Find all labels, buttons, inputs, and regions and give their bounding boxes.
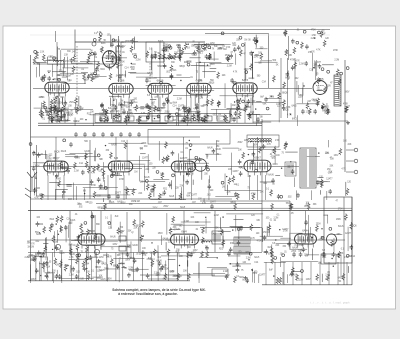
svg-text:22K: 22K bbox=[173, 120, 177, 122]
RC cluster bottom strip left bbox=[31, 252, 191, 281]
switch gang dashed line 2 bbox=[149, 63, 151, 86]
svg-text:250V: 250V bbox=[152, 208, 158, 210]
if coil box bbox=[247, 135, 279, 147]
svg-text:6AL5: 6AL5 bbox=[285, 76, 291, 79]
svg-text:4.7K: 4.7K bbox=[53, 242, 58, 244]
RC cluster row2 left bbox=[29, 139, 96, 201]
grid labels above row1 bbox=[145, 62, 266, 87]
RC cluster under V4 bbox=[144, 95, 185, 122]
svg-text:33K: 33K bbox=[259, 116, 263, 118]
svg-text:4.7K: 4.7K bbox=[95, 71, 100, 73]
wire vertical x262 bbox=[261, 119, 263, 252]
wire top bus right step bbox=[205, 33, 269, 35]
svg-text:115V: 115V bbox=[298, 279, 303, 281]
yoke winding 2 bbox=[234, 246, 250, 254]
tube V13 bbox=[78, 234, 105, 249]
svg-text:6BQ6: 6BQ6 bbox=[192, 54, 198, 56]
svg-text:22K: 22K bbox=[175, 187, 179, 189]
tube type labels bbox=[53, 77, 324, 234]
svg-text:2.2M: 2.2M bbox=[299, 63, 304, 65]
small transformer pair bbox=[119, 236, 126, 251]
wire bus F right bottom bbox=[262, 284, 352, 286]
svg-text:12AT7: 12AT7 bbox=[180, 156, 188, 160]
ground bottom mid bbox=[244, 276, 248, 280]
svg-text:1.5K: 1.5K bbox=[226, 47, 231, 49]
svg-text:6AL5: 6AL5 bbox=[242, 78, 249, 82]
svg-text:250V: 250V bbox=[69, 102, 75, 104]
svg-text:270K: 270K bbox=[132, 54, 138, 56]
long thin box band B bbox=[148, 130, 230, 145]
svg-text:12AT7: 12AT7 bbox=[103, 188, 110, 191]
node dot top bbox=[256, 40, 259, 43]
svg-text:33K: 33K bbox=[190, 169, 194, 171]
svg-text:6CB6: 6CB6 bbox=[118, 78, 125, 82]
svg-text:180V: 180V bbox=[131, 201, 137, 203]
svg-text:22K: 22K bbox=[152, 168, 156, 170]
svg-text:22K: 22K bbox=[51, 113, 55, 115]
svg-text:6AU6: 6AU6 bbox=[304, 234, 310, 237]
wire vertical feed left bbox=[74, 30, 76, 56]
wire bus D main bbox=[28, 210, 352, 212]
svg-text:1.5K: 1.5K bbox=[64, 55, 69, 57]
svg-text:6CB6: 6CB6 bbox=[54, 77, 61, 81]
svg-text:12AT7: 12AT7 bbox=[345, 232, 352, 235]
svg-text:2.2M: 2.2M bbox=[35, 188, 40, 190]
svg-text:180V: 180V bbox=[253, 144, 259, 146]
RC cluster A4 top mid bbox=[221, 32, 264, 62]
terminal circle top bbox=[202, 44, 207, 49]
svg-text:à redressé l'oscillateur son,: à redressé l'oscillateur son, à gauche. bbox=[118, 292, 178, 296]
svg-text:t . i . . r . . t . i .: t . i . . r . . t . i . . u . f . mod . … bbox=[311, 301, 350, 305]
svg-text:22K: 22K bbox=[145, 169, 149, 171]
svg-text:1M: 1M bbox=[56, 264, 59, 266]
tube V3 bbox=[109, 83, 133, 97]
wire top bus bbox=[75, 41, 205, 43]
labels right of T1 bbox=[319, 155, 339, 188]
RC cluster bottom strip right bbox=[223, 252, 352, 284]
svg-text:10K: 10K bbox=[238, 150, 242, 152]
svg-text:6AL5: 6AL5 bbox=[169, 195, 175, 198]
terminal strip J1 bbox=[354, 148, 358, 152]
svg-text:68K: 68K bbox=[198, 49, 202, 51]
svg-text:1M: 1M bbox=[222, 187, 225, 189]
label column volume bbox=[25, 241, 44, 262]
svg-text:1M: 1M bbox=[68, 223, 71, 225]
svg-text:2.2M: 2.2M bbox=[136, 60, 141, 62]
svg-text:1.5K: 1.5K bbox=[40, 51, 45, 53]
svg-text:6AL5: 6AL5 bbox=[273, 163, 279, 166]
wire verticals audio col bbox=[280, 58, 282, 118]
switch gang dashed line bbox=[76, 46, 78, 115]
svg-text:250V: 250V bbox=[119, 231, 125, 233]
tube V14 bbox=[171, 234, 199, 248]
svg-text:33K: 33K bbox=[129, 204, 133, 206]
svg-text:1.5K: 1.5K bbox=[275, 140, 280, 142]
svg-text:68K: 68K bbox=[337, 234, 341, 236]
svg-text:6BQ6: 6BQ6 bbox=[351, 225, 357, 227]
antenna symbol bbox=[25, 172, 37, 198]
svg-text:1M: 1M bbox=[134, 171, 137, 173]
svg-text:6AU6: 6AU6 bbox=[84, 150, 90, 153]
svg-text:1M: 1M bbox=[244, 40, 247, 42]
wire bottom mid rail bbox=[140, 274, 215, 276]
svg-text:115V: 115V bbox=[334, 155, 339, 157]
svg-text:6AL5: 6AL5 bbox=[101, 263, 107, 266]
wire row2 plate line bbox=[31, 166, 300, 168]
svg-text:4.7K: 4.7K bbox=[34, 198, 39, 200]
svg-text:6AU6: 6AU6 bbox=[338, 276, 344, 279]
svg-text:180V: 180V bbox=[298, 251, 304, 253]
svg-text:4.7K: 4.7K bbox=[229, 116, 234, 118]
svg-text:10K: 10K bbox=[142, 248, 146, 250]
wire vertical x215 bbox=[214, 211, 216, 252]
svg-text:22K: 22K bbox=[128, 41, 132, 43]
svg-text:6AL5: 6AL5 bbox=[254, 256, 260, 259]
svg-text:6AL5: 6AL5 bbox=[292, 117, 298, 120]
svg-text:250V: 250V bbox=[238, 142, 244, 144]
RC cluster box interior bbox=[329, 201, 357, 258]
inductor L1 (hatched coil) bbox=[334, 75, 341, 106]
svg-text:68K: 68K bbox=[258, 63, 262, 65]
svg-text:115V: 115V bbox=[253, 38, 258, 40]
RC cluster row2 mid1 bbox=[96, 141, 161, 202]
if can small bbox=[212, 231, 223, 244]
svg-text:180V: 180V bbox=[344, 91, 350, 93]
svg-text:270K: 270K bbox=[333, 50, 339, 52]
tube V15 bbox=[295, 234, 317, 248]
if coil band above V11 bbox=[248, 138, 271, 140]
wire vertical x30 left edge bbox=[30, 55, 32, 281]
svg-text:68K: 68K bbox=[91, 78, 95, 80]
svg-text:1M: 1M bbox=[31, 246, 34, 248]
tube V10 bbox=[171, 161, 195, 175]
node dot audio bbox=[321, 106, 324, 109]
svg-text:6BQ7: 6BQ7 bbox=[53, 156, 60, 160]
RC cluster row3 c bbox=[263, 213, 328, 260]
svg-text:33K: 33K bbox=[171, 62, 175, 64]
tuner box row2 bbox=[36, 145, 38, 196]
svg-text:6AL5: 6AL5 bbox=[180, 206, 186, 209]
svg-text:6AL5: 6AL5 bbox=[211, 233, 217, 236]
svg-text:2.2M: 2.2M bbox=[128, 268, 133, 270]
svg-text:1.5K: 1.5K bbox=[35, 166, 40, 168]
svg-text:115V: 115V bbox=[97, 270, 102, 272]
svg-text:1M: 1M bbox=[150, 75, 153, 77]
svg-text:22K: 22K bbox=[215, 228, 219, 230]
svg-text:22K: 22K bbox=[180, 185, 184, 187]
wire top shield line bbox=[140, 29, 330, 31]
svg-text:10K: 10K bbox=[183, 271, 187, 273]
wire tube pin drops row1 bbox=[49, 97, 253, 124]
svg-text:12AT7: 12AT7 bbox=[259, 274, 266, 277]
svg-text:10K: 10K bbox=[195, 222, 199, 224]
svg-text:2.2M: 2.2M bbox=[227, 65, 232, 67]
svg-text:2.2M: 2.2M bbox=[246, 107, 251, 109]
RC cluster band D labels bbox=[77, 201, 317, 210]
svg-text:115V: 115V bbox=[31, 279, 36, 281]
RC cluster A6 audio out right bbox=[301, 60, 350, 115]
wire bus B1 right bbox=[262, 120, 348, 122]
svg-text:470K: 470K bbox=[311, 29, 317, 31]
svg-text:1M: 1M bbox=[216, 141, 219, 143]
svg-text:180V: 180V bbox=[157, 111, 163, 113]
svg-text:6AL5: 6AL5 bbox=[117, 201, 123, 204]
tube V2 bbox=[45, 82, 69, 96]
wire v above V11 bbox=[253, 143, 255, 161]
svg-text:6AU6: 6AU6 bbox=[132, 244, 138, 247]
RC cluster A5 top right bbox=[283, 29, 338, 57]
svg-text:270K: 270K bbox=[291, 251, 297, 253]
wire bus D partial bbox=[200, 200, 290, 202]
svg-text:6BQ6: 6BQ6 bbox=[97, 207, 103, 209]
svg-text:33K: 33K bbox=[128, 231, 132, 233]
tube V6 bbox=[233, 83, 257, 97]
svg-text:4.7K: 4.7K bbox=[210, 49, 215, 51]
svg-text:22K: 22K bbox=[174, 53, 178, 55]
svg-text:33K: 33K bbox=[340, 253, 344, 255]
svg-text:115V: 115V bbox=[244, 140, 249, 142]
hv inner box bbox=[321, 254, 336, 264]
RC cluster A1 tuner area bbox=[33, 49, 99, 81]
svg-text:6AU6: 6AU6 bbox=[158, 40, 164, 43]
svg-text:6BQ6: 6BQ6 bbox=[88, 229, 95, 233]
svg-text:22K: 22K bbox=[138, 193, 142, 195]
svg-text:270K: 270K bbox=[276, 104, 282, 106]
svg-text:270K: 270K bbox=[141, 143, 147, 145]
svg-text:180V: 180V bbox=[120, 46, 126, 48]
svg-text:33K: 33K bbox=[230, 243, 234, 245]
wire mesh band A bbox=[37, 44, 317, 80]
svg-text:6AU6: 6AU6 bbox=[69, 253, 75, 256]
wire bus D upper bbox=[101, 207, 352, 209]
svg-text:6SN7: 6SN7 bbox=[254, 156, 261, 160]
svg-text:470K: 470K bbox=[40, 97, 46, 99]
svg-text:6AU6: 6AU6 bbox=[110, 235, 116, 238]
svg-text:4.7K: 4.7K bbox=[295, 61, 300, 63]
svg-text:22K: 22K bbox=[222, 75, 226, 77]
wire vertical x352 bbox=[351, 197, 353, 285]
svg-text:68K: 68K bbox=[96, 224, 100, 226]
svg-text:6AU6: 6AU6 bbox=[338, 225, 344, 228]
wire risers row2 tubes bbox=[56, 137, 258, 161]
svg-text:10K: 10K bbox=[330, 158, 334, 160]
svg-text:6AU6: 6AU6 bbox=[114, 40, 120, 43]
svg-text:1.5K: 1.5K bbox=[308, 52, 313, 54]
svg-text:4.7K: 4.7K bbox=[251, 238, 256, 240]
RC cluster under V5 bbox=[180, 94, 221, 123]
svg-text:250V: 250V bbox=[88, 76, 94, 78]
wire legs bottom right strip bbox=[265, 262, 267, 285]
hv cage right lines bbox=[343, 197, 345, 285]
RC cluster row3 left bbox=[29, 215, 77, 257]
svg-text:470K: 470K bbox=[343, 103, 349, 105]
svg-text:12AT7: 12AT7 bbox=[191, 194, 198, 197]
svg-text:6BQ6: 6BQ6 bbox=[136, 225, 142, 227]
wire tuner mid rail bbox=[33, 63, 118, 65]
svg-text:33K: 33K bbox=[198, 80, 202, 82]
wire mesh row2 bbox=[34, 140, 330, 200]
svg-text:1M: 1M bbox=[190, 173, 193, 175]
svg-text:270K: 270K bbox=[164, 268, 170, 270]
svg-text:6AU6: 6AU6 bbox=[75, 239, 81, 242]
svg-text:470K: 470K bbox=[120, 264, 126, 266]
svg-text:68K: 68K bbox=[263, 104, 267, 106]
svg-text:250V: 250V bbox=[252, 273, 258, 275]
RC cluster A2 around V1 bbox=[93, 33, 140, 80]
svg-text:22K: 22K bbox=[117, 161, 121, 163]
svg-text:180V: 180V bbox=[336, 219, 342, 221]
svg-text:6BQ6: 6BQ6 bbox=[195, 47, 201, 49]
svg-text:180V: 180V bbox=[46, 161, 52, 163]
wire risers row1 tubes to top bus bbox=[57, 42, 245, 82]
tube V12 small round bbox=[194, 159, 206, 171]
svg-text:2.2M: 2.2M bbox=[74, 170, 79, 172]
svg-text:4.7K: 4.7K bbox=[30, 243, 35, 245]
hatch box row2 right bbox=[285, 162, 296, 176]
svg-text:115V: 115V bbox=[112, 244, 117, 246]
svg-text:10K: 10K bbox=[260, 192, 264, 194]
tube V5 bbox=[187, 83, 211, 97]
svg-text:115V: 115V bbox=[210, 43, 215, 45]
svg-text:250V: 250V bbox=[163, 206, 169, 208]
svg-text:1.5K: 1.5K bbox=[312, 35, 317, 37]
svg-text:250V: 250V bbox=[244, 69, 250, 71]
svg-text:6AU6: 6AU6 bbox=[292, 246, 298, 249]
svg-text:33K: 33K bbox=[313, 204, 317, 206]
svg-text:1M: 1M bbox=[119, 65, 122, 67]
svg-text:470K: 470K bbox=[257, 241, 263, 243]
tube V11 bbox=[244, 160, 271, 175]
svg-text:22K: 22K bbox=[329, 172, 333, 174]
svg-text:22K: 22K bbox=[134, 227, 138, 229]
svg-text:12AT7: 12AT7 bbox=[115, 191, 122, 194]
tube V16 small round in box bbox=[327, 234, 337, 245]
svg-text:6BQ6: 6BQ6 bbox=[283, 109, 289, 111]
wire mesh row3 bbox=[47, 212, 349, 258]
svg-text:6AU6: 6AU6 bbox=[132, 270, 138, 273]
svg-text:250V: 250V bbox=[102, 114, 108, 116]
svg-text:2.2M: 2.2M bbox=[169, 271, 174, 273]
label band top mid bbox=[187, 43, 237, 53]
svg-text:6AL5: 6AL5 bbox=[101, 278, 107, 281]
svg-text:12AT7: 12AT7 bbox=[210, 201, 217, 204]
svg-text:10K: 10K bbox=[190, 217, 194, 219]
svg-text:1M: 1M bbox=[325, 279, 328, 281]
svg-text:115V: 115V bbox=[306, 279, 311, 281]
wire vertical x70 bbox=[69, 211, 71, 252]
svg-text:10K: 10K bbox=[90, 112, 94, 114]
svg-text:6AU6: 6AU6 bbox=[268, 173, 274, 176]
svg-text:33K: 33K bbox=[85, 202, 89, 204]
wire bus F bottom bbox=[28, 280, 190, 282]
svg-text:2.2M: 2.2M bbox=[246, 258, 251, 260]
tube V8 bbox=[44, 161, 68, 175]
svg-text:180V: 180V bbox=[84, 79, 90, 81]
RC cluster under V2 bbox=[39, 96, 85, 123]
svg-text:22K: 22K bbox=[285, 52, 289, 54]
RC cluster band B strip bbox=[39, 106, 251, 121]
tube V4 bbox=[148, 83, 172, 97]
svg-text:470K: 470K bbox=[251, 194, 257, 196]
hv rectifier box bbox=[324, 197, 352, 263]
RC cluster row2 right bbox=[234, 140, 300, 200]
svg-text:1M: 1M bbox=[120, 100, 123, 102]
svg-text:6BQ6: 6BQ6 bbox=[282, 92, 288, 94]
if box small bbox=[146, 42, 164, 62]
svg-text:6AU6: 6AU6 bbox=[215, 148, 221, 151]
svg-text:6AL5: 6AL5 bbox=[292, 105, 298, 108]
svg-text:2.2M: 2.2M bbox=[325, 274, 330, 276]
svg-text:4.7K: 4.7K bbox=[193, 109, 198, 111]
svg-text:270K: 270K bbox=[299, 245, 305, 247]
wire vertical x290 bbox=[289, 201, 291, 250]
svg-text:12AT7: 12AT7 bbox=[103, 254, 110, 257]
RC cluster under V3 bbox=[99, 96, 146, 125]
wire bus F top bbox=[28, 252, 262, 254]
wire mesh bottom bbox=[30, 254, 341, 283]
RC cluster row3 b bbox=[151, 215, 262, 259]
wire bus B1 double line bbox=[38, 122, 262, 124]
svg-text:250V: 250V bbox=[158, 233, 164, 235]
wire risers row3 tubes bbox=[92, 211, 306, 234]
terminal circle top left bbox=[92, 42, 96, 46]
svg-text:4.7K: 4.7K bbox=[233, 72, 238, 74]
svg-text:1M: 1M bbox=[313, 64, 316, 66]
svg-text:10K: 10K bbox=[325, 153, 329, 155]
svg-text:6AL5: 6AL5 bbox=[59, 252, 65, 255]
wire row1 plate line bbox=[33, 88, 312, 90]
svg-text:22K: 22K bbox=[116, 111, 120, 113]
wire row2 lower rail bbox=[30, 198, 232, 200]
svg-text:1.5K: 1.5K bbox=[97, 195, 102, 197]
svg-text:12AT7: 12AT7 bbox=[326, 178, 333, 181]
svg-text:22K: 22K bbox=[348, 144, 352, 146]
yoke winding 1 bbox=[234, 237, 250, 244]
svg-text:2.2M: 2.2M bbox=[177, 99, 182, 101]
wire row3 plate line bbox=[31, 239, 346, 241]
svg-text:2.2M: 2.2M bbox=[269, 97, 274, 99]
svg-text:12AT7: 12AT7 bbox=[282, 228, 289, 231]
transformer T1 bbox=[300, 148, 316, 188]
svg-text:270K: 270K bbox=[120, 61, 126, 63]
svg-text:250V: 250V bbox=[130, 258, 136, 260]
grid labels above row1 left bbox=[40, 71, 95, 84]
svg-text:180V: 180V bbox=[107, 279, 113, 281]
svg-text:250V: 250V bbox=[210, 64, 216, 66]
svg-text:12AT7: 12AT7 bbox=[142, 157, 149, 160]
terminal strip band bbox=[95, 114, 230, 123]
caps row band B bbox=[74, 132, 78, 137]
wire row2 top rail bbox=[31, 136, 201, 138]
svg-text:270K: 270K bbox=[91, 185, 97, 187]
svg-text:2.2M: 2.2M bbox=[214, 215, 219, 217]
wire mesh row1 bbox=[34, 81, 327, 126]
small can row1 bbox=[55, 110, 68, 121]
svg-text:12AT7: 12AT7 bbox=[232, 170, 239, 173]
svg-text:470K: 470K bbox=[199, 51, 205, 53]
svg-text:4.7K: 4.7K bbox=[316, 49, 321, 51]
svg-text:4.7K: 4.7K bbox=[341, 168, 346, 170]
svg-text:6AU6: 6AU6 bbox=[61, 150, 67, 153]
width coil box bbox=[212, 269, 228, 276]
drawing layer start bbox=[25, 29, 358, 304]
RC cluster between rows mid bbox=[264, 59, 303, 120]
svg-text:33K: 33K bbox=[329, 165, 333, 167]
svg-text:2.2M: 2.2M bbox=[184, 221, 189, 223]
svg-text:6BQ6: 6BQ6 bbox=[230, 202, 236, 204]
svg-text:270K: 270K bbox=[338, 209, 344, 211]
RC cluster A3 IF unit interior bbox=[146, 40, 212, 62]
